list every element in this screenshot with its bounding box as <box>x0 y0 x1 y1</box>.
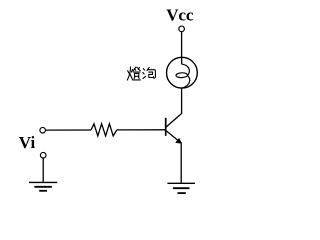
svg-text:Vcc: Vcc <box>166 6 194 25</box>
svg-text:Vi: Vi <box>19 133 36 152</box>
